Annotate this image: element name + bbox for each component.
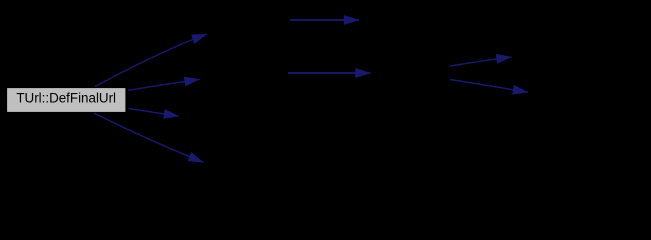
edge D: box bottom to node (204,162) [94,113,204,162]
node box TUrl::DefFinalUrl [7,88,127,113]
edge A: box top to node (207,34) [95,34,207,87]
edge E: horizontal arrow y=19.5 [290,19,359,21]
svg-text:TUrl::DefFinalUrl: TUrl::DefFinalUrl [16,90,116,105]
edge F: horizontal arrow y=73 [288,72,371,74]
edge C: box right to node (179,116.2) [129,109,180,117]
edge G: to node (511.5,57) [450,57,512,66]
edge H: to node (526.7,91.8) [450,80,528,93]
edge B: box right to node (199.5,79.3) [128,79,200,90]
